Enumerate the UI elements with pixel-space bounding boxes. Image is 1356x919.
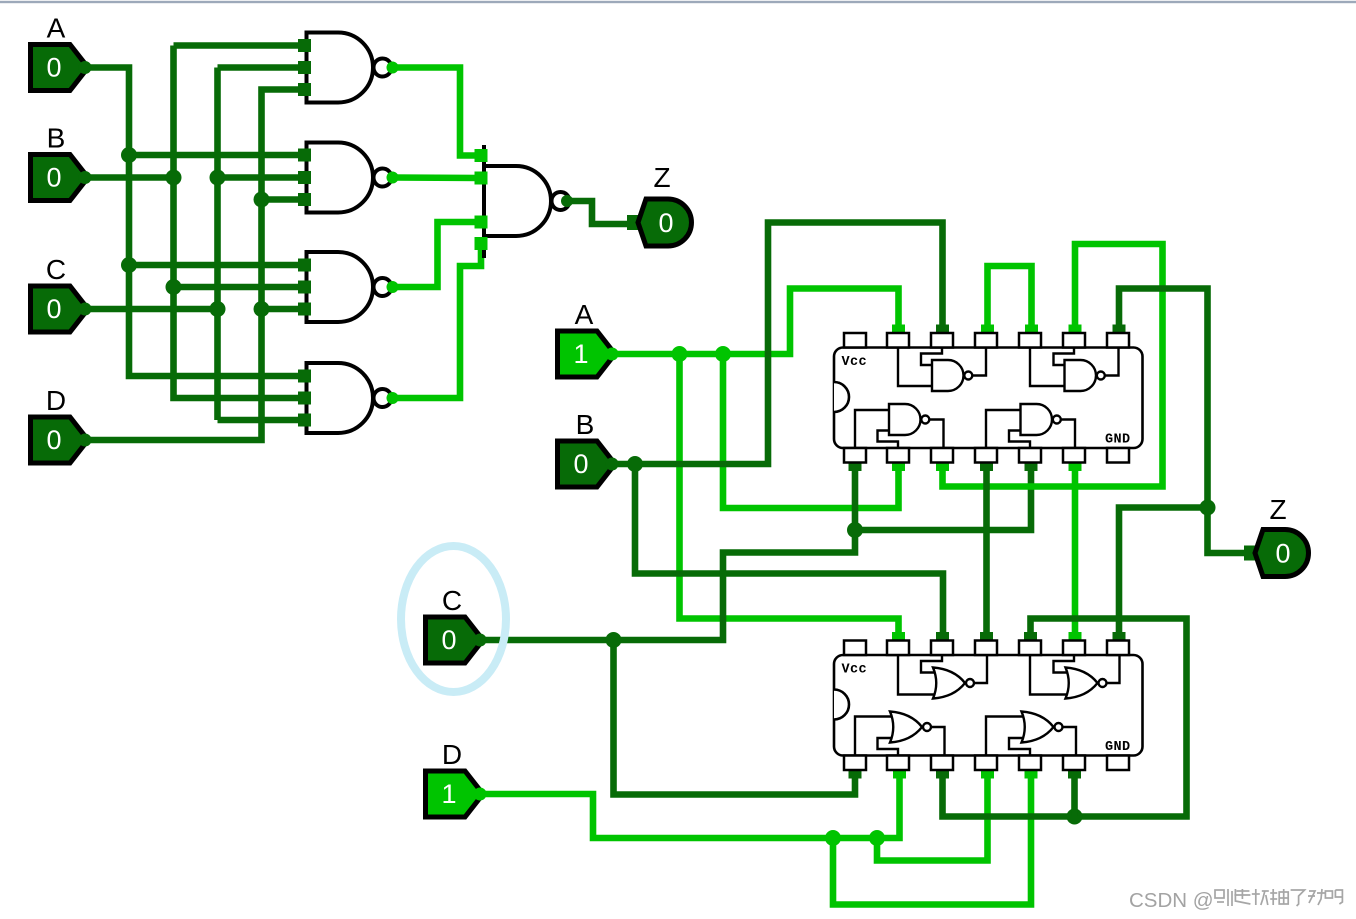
output pin Z (left) value 0 — [627, 162, 691, 246]
input pin D (left) value 0 — [31, 385, 92, 463]
U1 gate 2 (pins 4,5 to 6) — [986, 404, 1075, 448]
4-input NAND gate U5 — [475, 145, 574, 258]
wire U2 pin6 stub — [1068, 771, 1081, 817]
NAND gate G3 (inputs A,B,D) — [298, 252, 399, 322]
svg-text:A: A — [47, 13, 66, 44]
wire G3 output to U5 input 3 — [393, 222, 482, 287]
wire U5 output to pin Z (left) — [567, 201, 630, 224]
svg-text:0: 0 — [46, 425, 61, 455]
junction net D dots — [825, 830, 885, 846]
svg-text:C: C — [46, 254, 66, 285]
svg-text:D: D — [442, 739, 462, 770]
wire net D branch to U2 pin5 — [833, 771, 1038, 905]
junction net A dots — [672, 346, 732, 362]
svg-text:Z: Z — [1269, 494, 1286, 525]
U2 gate 2 (pins 4,5 to 6) — [986, 712, 1076, 756]
svg-text:0: 0 — [1275, 539, 1290, 569]
svg-text:Z: Z — [653, 162, 670, 193]
U2 gate 4 (pins 13,12 to 11) — [898, 655, 987, 699]
watermark CSDN — [1129, 889, 1342, 912]
wire G4 output to U5 input 4 — [393, 244, 482, 399]
svg-text:0: 0 — [573, 449, 588, 479]
svg-text:GND: GND — [1105, 433, 1131, 448]
NAND gate G1 (inputs B,C,D) — [298, 33, 399, 103]
highlight ellipse around pin C — [401, 546, 506, 692]
wire G1 output to U5 input 1 — [393, 68, 482, 156]
U1 gate 1 (pins 1,2 to 3) — [855, 404, 944, 448]
wire net C (right): pin C to junction — [482, 637, 614, 644]
svg-text:Vcc: Vcc — [842, 355, 868, 370]
junction A column dots — [121, 147, 137, 273]
junction net B dot — [627, 456, 643, 472]
wire net C (left): pin C to column x217.5 feeding gates 1,2,4 — [85, 68, 300, 421]
wire G2 output to U5 input 2 — [393, 174, 482, 181]
wire net C branch to U2 pin1 — [614, 640, 862, 795]
svg-text:0: 0 — [46, 163, 61, 193]
svg-text:GND: GND — [1105, 740, 1131, 755]
NAND gate G4 (inputs A,B,C) — [298, 363, 399, 433]
wire net A (left): pin A to column x129 feeding gates 2,3,4 — [85, 68, 300, 377]
U2 gate 3 (pins 10,9 to 8) — [1030, 655, 1120, 699]
svg-text:A: A — [575, 299, 594, 330]
svg-text:CSDN @: CSDN @ — [1129, 889, 1214, 912]
svg-text:0: 0 — [441, 625, 456, 655]
wire U1 pin6 to U2 pin9 — [1069, 464, 1082, 640]
junction U2 pin6 dot — [1067, 809, 1083, 825]
IC U2 7402 quad NOR body with Vcc and GND labels — [834, 641, 1143, 771]
input pin C (left) value 0 — [31, 254, 92, 332]
junction node Z dot — [1200, 500, 1216, 516]
IC U1 7400 quad NAND body with Vcc and GND labels — [834, 333, 1143, 463]
svg-text:0: 0 — [46, 294, 61, 324]
junction D column dots — [254, 192, 270, 318]
output pin Z (right) value 0 — [1244, 494, 1309, 577]
NAND gate G2 (inputs A,C,D) — [298, 143, 399, 213]
svg-text:B: B — [47, 123, 66, 154]
wire net B (right): pin B up and over into U1 pin12 — [613, 223, 949, 465]
U1 gate 3 (pins 10,9 to 8) — [1030, 348, 1119, 392]
wire net B branch to U2 pin12 — [635, 464, 949, 640]
wire net A (right): pin A over the top into U1 pin13 — [613, 289, 905, 355]
input pin C (right) value 0 — [426, 585, 487, 663]
wire net C riser to U1 pins 1 and 5 — [614, 464, 1038, 641]
junction net C dots — [606, 522, 864, 648]
wire net A branch to U2 pin13 — [680, 354, 906, 640]
junction B column dots — [166, 170, 182, 296]
input pin B (left) value 0 — [31, 123, 92, 201]
input pin A (left) value 0 — [31, 13, 92, 91]
svg-text:1: 1 — [441, 779, 456, 809]
svg-text:Vcc: Vcc — [842, 663, 868, 678]
input pin A (right) value 1 — [558, 299, 619, 377]
wire net D (right): pin D to U2 pin2 — [482, 771, 906, 838]
svg-text:D: D — [46, 385, 66, 416]
wire U1 pin8 to pin Z (right) — [1113, 289, 1247, 554]
wire net A branch to U1 pin2 — [723, 354, 905, 508]
wire U1 pin11 to U1 pin10 (NAND(A,B) feedback) — [981, 266, 1038, 332]
wire U1 pin3 to U1 pin9 — [936, 244, 1163, 487]
junction C column dots — [210, 170, 226, 318]
svg-text:0: 0 — [46, 53, 61, 83]
svg-text:0: 0 — [658, 208, 673, 238]
U1 gate 4 (pins 13,12 to 11) — [898, 348, 986, 392]
wire net D (left): pin D to column x261.5 feeding gates 1,2,3 — [85, 90, 300, 441]
svg-text:B: B — [576, 409, 595, 440]
input pin B (right) value 0 — [558, 409, 619, 487]
wire net D branch to U2 pin4 — [877, 771, 994, 861]
wire net B (left): pin B to column x173.5 feeding gates 1,3,4 — [85, 46, 300, 399]
svg-text:C: C — [442, 585, 462, 616]
toolbar bottom border — [0, 1, 1356, 3]
wire U2 pin11 to U1 pin4 (NOR(A,B)) — [980, 464, 993, 640]
svg-text:1: 1 — [573, 339, 588, 369]
wire U2 pin8 to node Z — [1113, 508, 1208, 640]
input pin D (right) value 1 — [426, 739, 487, 817]
U2 gate 1 (pins 1,2 to 3) — [855, 712, 945, 756]
wire U2 pin3 and pin6 to U2 pin10 — [936, 619, 1187, 817]
